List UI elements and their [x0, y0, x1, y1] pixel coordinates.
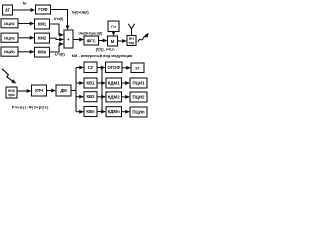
- wire M to VCh transmitter: [118, 40, 127, 42]
- wire KVn to KDMn: [97, 111, 105, 113]
- svg-text:U'н(t): U'н(t): [55, 53, 65, 57]
- svg-text:ДМ: ДМ: [60, 88, 67, 93]
- wire KDM1 to PCI1: [122, 82, 130, 84]
- wire KMn to summator: [50, 44, 64, 52]
- box KV2: [84, 92, 97, 102]
- box FGS: [84, 36, 99, 45]
- wire OGOF to ZG rx: [122, 67, 130, 69]
- svg-text:Гн: Гн: [111, 24, 116, 29]
- svg-text:КМ2: КМ2: [38, 36, 47, 41]
- svg-text:Pпчм(1-Ф(2чβ(tх): Pпчм(1-Ф(2чβ(tх): [12, 105, 49, 109]
- svg-text:КМ1: КМ1: [38, 22, 47, 27]
- svg-text:ЗГ: ЗГ: [135, 66, 140, 71]
- svg-text:КВ2: КВ2: [87, 94, 96, 99]
- bus stub to KV2: [76, 96, 83, 98]
- bus stub to SU: [76, 67, 83, 69]
- svg-text:КДМ2: КДМ2: [108, 94, 120, 99]
- box GOF: [36, 5, 51, 14]
- svg-text:ФГС: ФГС: [87, 39, 96, 44]
- wire ICI2 to KM2: [18, 37, 34, 39]
- box DM (demodulator): [56, 85, 71, 96]
- box UPCh: [32, 85, 47, 96]
- svg-text:КДМn: КДМn: [108, 109, 120, 114]
- wire KM2 to summator: [50, 38, 64, 39]
- box ICIn: [1, 47, 18, 56]
- wire receiver to UPCh: [17, 90, 31, 92]
- svg-text:ПЦИn: ПЦИn: [132, 110, 145, 115]
- svg-text:пер: пер: [129, 41, 135, 45]
- wire KV1 to KDM1: [97, 82, 105, 84]
- box KMn: [35, 47, 50, 57]
- wire summator to FGS: [73, 39, 83, 41]
- svg-text:ЗГ: ЗГ: [5, 8, 11, 13]
- bus stub to KV1: [76, 82, 83, 84]
- wire ZG to GOF: [13, 9, 35, 11]
- wire KDM2 to PCI2: [122, 96, 130, 98]
- svg-text:ИЦИ1: ИЦИ1: [4, 21, 15, 26]
- svg-text:КМn: КМn: [38, 50, 47, 55]
- wire KM1 to summator: [50, 24, 64, 35]
- svg-text:ПЦИ1: ПЦИ1: [133, 81, 146, 86]
- wire SU to OGOF: [97, 67, 105, 69]
- bus stub to KVn: [76, 111, 83, 113]
- svg-text:СУ: СУ: [88, 65, 94, 70]
- svg-text:ИЦИ2: ИЦИ2: [4, 35, 15, 40]
- svg-text:КВ1: КВ1: [87, 81, 96, 86]
- wire ICIn to KMn: [18, 51, 34, 53]
- box KV1: [84, 78, 97, 88]
- box Gn (heterodyne): [108, 21, 119, 32]
- box VCh per (RF transmitter): [127, 36, 136, 46]
- box ICI2: [1, 33, 18, 42]
- svg-text:КДМ1: КДМ1: [108, 81, 120, 86]
- svg-text:КВn: КВn: [86, 109, 95, 114]
- antenna TX: [128, 24, 134, 36]
- reference distribution vertical: [101, 68, 103, 112]
- svg-text:[f(t)], i=0,n: [f(t)], i=0,n: [96, 47, 115, 51]
- distribution bus vertical: [75, 68, 77, 112]
- wire ICI1 to KM1: [18, 23, 34, 25]
- wire Gn to M: [113, 32, 115, 36]
- radiated wave zigzag TX: [138, 33, 148, 42]
- box PCI2: [130, 92, 147, 102]
- box ICI1: [1, 19, 18, 28]
- box KDMn: [106, 107, 122, 117]
- wire GOF to summator top: [51, 10, 68, 30]
- wire FGS to M: [99, 40, 107, 42]
- box VChb prm (RF receiver): [6, 87, 17, 98]
- box KM2: [35, 33, 50, 43]
- svg-text:fн: fн: [23, 0, 27, 5]
- wire KDMn to PCIn: [122, 111, 130, 113]
- box M (modulator): [108, 36, 118, 46]
- box KVn: [84, 107, 97, 117]
- box KDM1: [106, 78, 122, 88]
- svg-text:U'м(t): U'м(t): [54, 17, 63, 21]
- box ZG (master oscillator): [3, 5, 13, 15]
- summator box: [64, 30, 73, 48]
- svg-text:ГОФ: ГОФ: [38, 7, 48, 12]
- box SU: [84, 62, 97, 73]
- svg-text:Uм(t)+Cум.U(t): Uм(t)+Cум.U(t): [79, 31, 103, 35]
- box OGOF: [106, 62, 123, 73]
- svg-text:прм: прм: [8, 93, 15, 97]
- svg-text:М: М: [111, 39, 115, 44]
- svg-text:КМ - инверсный вид модуляции: КМ - инверсный вид модуляции: [72, 54, 133, 58]
- box PCIn: [130, 107, 147, 117]
- box ZG rx: [131, 63, 144, 73]
- svg-text:ПЦИ2: ПЦИ2: [133, 95, 146, 100]
- incoming wave zigzag RX: [2, 69, 16, 83]
- svg-text:ОГОФ: ОГОФ: [107, 65, 120, 70]
- box KDM2: [106, 92, 122, 102]
- box PCI1: [130, 78, 147, 88]
- wire KV2 to KDM2: [97, 96, 105, 98]
- box KM1: [35, 19, 50, 29]
- svg-text:УПЧ: УПЧ: [35, 88, 43, 93]
- svg-text:ИЦИn: ИЦИn: [4, 49, 15, 54]
- wire UPCh to DM: [47, 90, 56, 92]
- svg-text:fн(t)+Uм(t): fн(t)+Uм(t): [72, 11, 89, 15]
- wire DM to bus: [71, 90, 76, 92]
